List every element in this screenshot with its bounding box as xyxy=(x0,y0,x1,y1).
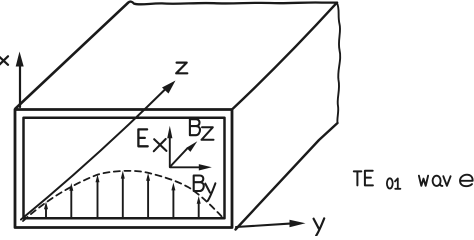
B_z arrow xyxy=(170,148,188,167)
e xyxy=(460,175,473,187)
x axis xyxy=(19,65,21,107)
T xyxy=(354,171,362,185)
waveguide inner front rectangle xyxy=(24,118,225,218)
v xyxy=(443,176,450,186)
w xyxy=(419,176,428,186)
x axis label xyxy=(0,56,8,65)
E_x label xyxy=(138,129,147,146)
z axis label xyxy=(176,63,187,74)
top face back edge (wavy) xyxy=(128,2,337,5)
subscript 1 xyxy=(395,178,400,188)
a xyxy=(433,176,441,186)
z axis xyxy=(21,89,166,220)
right face bottom edge xyxy=(236,123,338,230)
back right edge (wavy) xyxy=(337,3,340,123)
waveguide outer front rectangle xyxy=(15,110,232,228)
y axis label xyxy=(314,218,325,235)
field arrow 5 xyxy=(147,179,149,218)
E xyxy=(365,171,373,186)
top face right edge xyxy=(233,3,338,109)
dashed field envelope curve xyxy=(23,171,225,221)
field arrow 4 xyxy=(122,177,124,218)
y axis xyxy=(236,224,290,227)
field arrow 3 xyxy=(97,180,99,218)
B_z label xyxy=(190,119,200,135)
subscript 0 xyxy=(387,178,393,188)
field arrow 1 xyxy=(45,207,47,218)
top face left edge xyxy=(16,3,129,109)
E_x arrow xyxy=(169,138,171,168)
B_y label xyxy=(194,176,204,192)
B_y arrow xyxy=(170,166,200,168)
field arrow 6 xyxy=(172,190,174,218)
field arrow 2 xyxy=(70,189,72,218)
field arrow 7 xyxy=(198,202,200,218)
